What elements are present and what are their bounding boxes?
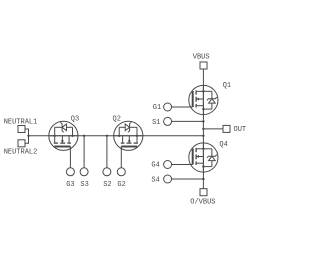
junction S2 node — [106, 135, 108, 137]
svg-text:O/VBUS: O/VBUS — [190, 198, 215, 206]
svg-text:Q4: Q4 — [219, 141, 227, 149]
pad VBUS — [200, 62, 207, 69]
wire NEUTRAL1 to junction — [25, 129, 29, 136]
terminal S2 — [103, 168, 111, 176]
wire neutral row horizontal — [29, 135, 204, 137]
terminal S1 — [164, 117, 172, 125]
svg-text:Q1: Q1 — [223, 82, 231, 90]
svg-text:S3: S3 — [80, 181, 88, 189]
pad NEUTRAL1 — [18, 126, 25, 133]
terminal G4 — [164, 161, 172, 169]
svg-text:Q3: Q3 — [71, 116, 79, 124]
pad NEUTRAL2 — [18, 140, 25, 147]
wire G2 — [120, 147, 122, 168]
svg-text:S2: S2 — [103, 181, 111, 189]
transistor Q2 (N-MOSFET rotated+mirrored, diode on top pointing right) — [114, 121, 143, 150]
wire G1 — [171, 106, 190, 108]
svg-text:G2: G2 — [117, 181, 125, 189]
terminal G2 — [117, 168, 125, 176]
junction neutral node — [27, 135, 29, 137]
pad OUT — [223, 125, 230, 132]
wire NEUTRAL2 to junction — [25, 136, 29, 144]
svg-text:S1: S1 — [152, 119, 160, 127]
transistor Q1 (N-MOSFET with body zener diode) — [189, 85, 218, 114]
wire G4 — [171, 164, 190, 166]
svg-text:NEUTRAL2: NEUTRAL2 — [4, 148, 38, 156]
junction S1 node — [202, 120, 204, 122]
terminal G1 — [164, 103, 172, 111]
svg-text:Q2: Q2 — [113, 116, 121, 124]
svg-text:S4: S4 — [151, 177, 159, 185]
wire S3 — [83, 136, 85, 168]
transistor Q3 (N-MOSFET rotated, diode on top pointing left) — [49, 121, 78, 150]
svg-text:G1: G1 — [153, 104, 161, 112]
wire S1 — [171, 120, 203, 122]
terminal S4 — [164, 175, 172, 183]
svg-text:OUT: OUT — [234, 126, 247, 134]
terminal S3 — [80, 168, 88, 176]
wire OUT branch — [203, 128, 223, 130]
wire S2 — [106, 136, 108, 168]
wire G3 — [69, 147, 71, 168]
junction OUT node — [202, 128, 204, 130]
pad 0/VBUS — [200, 189, 207, 196]
junction row-bus node — [202, 135, 204, 137]
junction S3 node — [83, 135, 85, 137]
wire S4 — [171, 178, 203, 180]
svg-text:NEUTRAL1: NEUTRAL1 — [4, 118, 38, 126]
svg-text:G3: G3 — [66, 181, 74, 189]
wire vertical bus VBUS to 0/VBUS — [202, 69, 204, 189]
junction S4 node — [202, 178, 204, 180]
svg-text:G4: G4 — [151, 162, 159, 170]
svg-text:VBUS: VBUS — [193, 54, 210, 62]
transistor Q4 (N-MOSFET with body zener diode) — [189, 143, 218, 172]
terminal G3 — [66, 168, 74, 176]
